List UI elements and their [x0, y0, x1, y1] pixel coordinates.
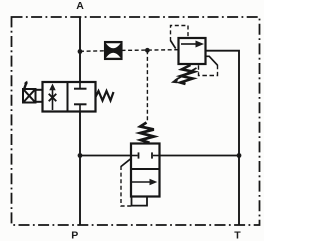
valve V2 position divider	[131, 168, 160, 170]
node junction A-pilot	[78, 49, 83, 54]
valve V1 right position: blocked port bottom	[79, 105, 81, 112]
valve V2 pilot loop (dashed)	[121, 159, 131, 167]
enclosure dash-dot border	[12, 17, 260, 225]
svg-text:P: P	[71, 230, 78, 241]
wire A line	[79, 17, 81, 83]
wire branch to sequence valve	[80, 155, 131, 157]
valve V1 position divider	[67, 82, 69, 112]
valve V2 top position: blocked ports	[131, 155, 138, 157]
svg-text:T: T	[234, 230, 241, 241]
solenoid lever stub	[24, 82, 26, 89]
node junction on T line	[237, 153, 242, 158]
spring of V2 (top)	[140, 123, 154, 143]
wire P line	[79, 112, 81, 226]
relief valve RV flow arrow	[181, 43, 197, 45]
wire pilot dashed line right segment	[122, 49, 179, 52]
relief valve RV pilot loop (dashed, top)	[171, 41, 176, 49]
relief valve RV body	[179, 38, 206, 64]
valve V2 drain stub (solid U)	[132, 198, 148, 206]
relief valve RV drain loop (dashed, right)	[206, 56, 218, 65]
wire pilot dashed drop to V2 spring	[146, 50, 148, 122]
valve V1 left position: throttled flow arrow	[52, 89, 54, 111]
wire RV outlet to T line	[206, 51, 240, 225]
node junction pilot branch	[145, 48, 150, 53]
valve V1 body (solenoid flow-control valve, 2 position)	[43, 82, 96, 112]
adjustment arrow through RV spring	[175, 68, 197, 80]
svg-text:A: A	[76, 0, 84, 12]
valve V2 bottom position: flow arrow	[132, 181, 151, 183]
valve V2 body (pilot-operated 2-position, spring top)	[131, 144, 160, 197]
spring of RV (angled, bottom-left)	[180, 65, 194, 84]
solenoid actuator of V1	[23, 89, 43, 103]
spring of V1 (right side)	[96, 91, 114, 101]
wire sequence valve to T line	[160, 155, 240, 157]
valve V1 right position: blocked port top	[79, 82, 81, 88]
node junction P-branch	[78, 153, 83, 158]
wire pilot dashed line left segment	[80, 50, 105, 53]
orifice (pilot restrictor)	[105, 42, 122, 59]
